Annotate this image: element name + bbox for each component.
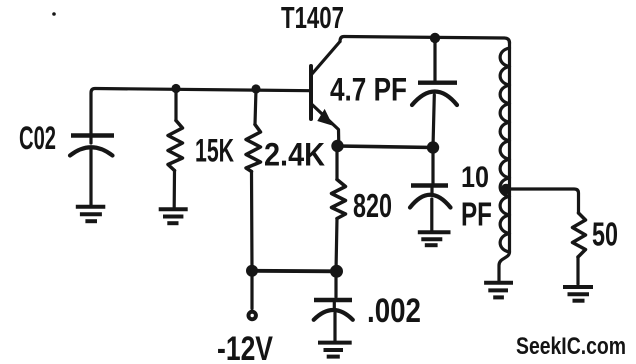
wire: collector top rail xyxy=(340,37,510,44)
junction: emitter rail / 10PF xyxy=(427,141,439,153)
ground below .002 xyxy=(318,343,352,357)
wire: base rail from C02 up-corner to Q1 base xyxy=(91,89,310,135)
ground below 15K xyxy=(159,209,188,223)
wire: -12V stub xyxy=(250,270,253,309)
capacitor .002 xyxy=(314,271,353,341)
capacitor 4.7 PF xyxy=(412,38,457,147)
junction: top rail / 4.7PF xyxy=(430,33,440,43)
value label 15K xyxy=(195,133,234,169)
value label 4.7 PF xyxy=(330,72,407,108)
resistor 50 xyxy=(573,213,586,284)
watermark SeekIC.com xyxy=(516,333,626,360)
resistor 15K xyxy=(168,89,183,208)
value label C02 xyxy=(19,120,56,156)
svg-text:-12V: -12V xyxy=(217,330,273,364)
value label 50 xyxy=(592,216,618,253)
junction: 2.4K / bottom rail / -12V stub xyxy=(246,265,258,277)
value label 820 xyxy=(353,187,392,224)
ground below 50 xyxy=(563,287,593,301)
svg-text:2.4K: 2.4K xyxy=(264,137,325,173)
svg-text:15K: 15K xyxy=(195,133,234,169)
label -12V xyxy=(217,330,273,364)
ground below 10PF xyxy=(418,232,451,245)
value label 2.4K xyxy=(264,137,325,173)
value label 10 PF (two lines) xyxy=(461,161,492,233)
ground below coil xyxy=(484,283,513,298)
svg-text:SeekIC.com: SeekIC.com xyxy=(516,333,626,360)
terminal circle -12V xyxy=(249,312,256,319)
wire: bottom rail xyxy=(252,269,337,273)
svg-text:.002: .002 xyxy=(367,292,421,330)
junction: emitter / 820 xyxy=(331,140,343,152)
junction: coil tap xyxy=(501,184,511,194)
junction: base rail / 2.4K resistor xyxy=(251,84,260,93)
label T1407 (transistor type) xyxy=(281,0,344,35)
transistor Q1 (T1407) xyxy=(311,42,340,147)
svg-text:50: 50 xyxy=(592,216,618,253)
junction: bottom rail / .002 xyxy=(330,265,343,278)
capacitor C02 xyxy=(70,136,114,207)
ground below C02 xyxy=(76,207,106,221)
inductor L1 (coil) xyxy=(499,42,510,281)
resistor 2.4K xyxy=(246,89,261,270)
svg-text:PF: PF xyxy=(461,196,492,233)
wire: emitter rail xyxy=(338,146,434,148)
svg-text:C02: C02 xyxy=(19,120,56,156)
svg-text:820: 820 xyxy=(353,187,392,224)
svg-text:T1407: T1407 xyxy=(281,0,344,35)
resistor 820 xyxy=(332,145,346,271)
value label .002 xyxy=(367,292,421,330)
capacitor 10 PF xyxy=(410,147,451,231)
svg-text:4.7 PF: 4.7 PF xyxy=(330,72,407,108)
svg-text:10: 10 xyxy=(461,161,489,194)
wire: coil tap to 50 ohm xyxy=(506,189,579,213)
junction: base rail / 15K resistor xyxy=(171,84,180,93)
